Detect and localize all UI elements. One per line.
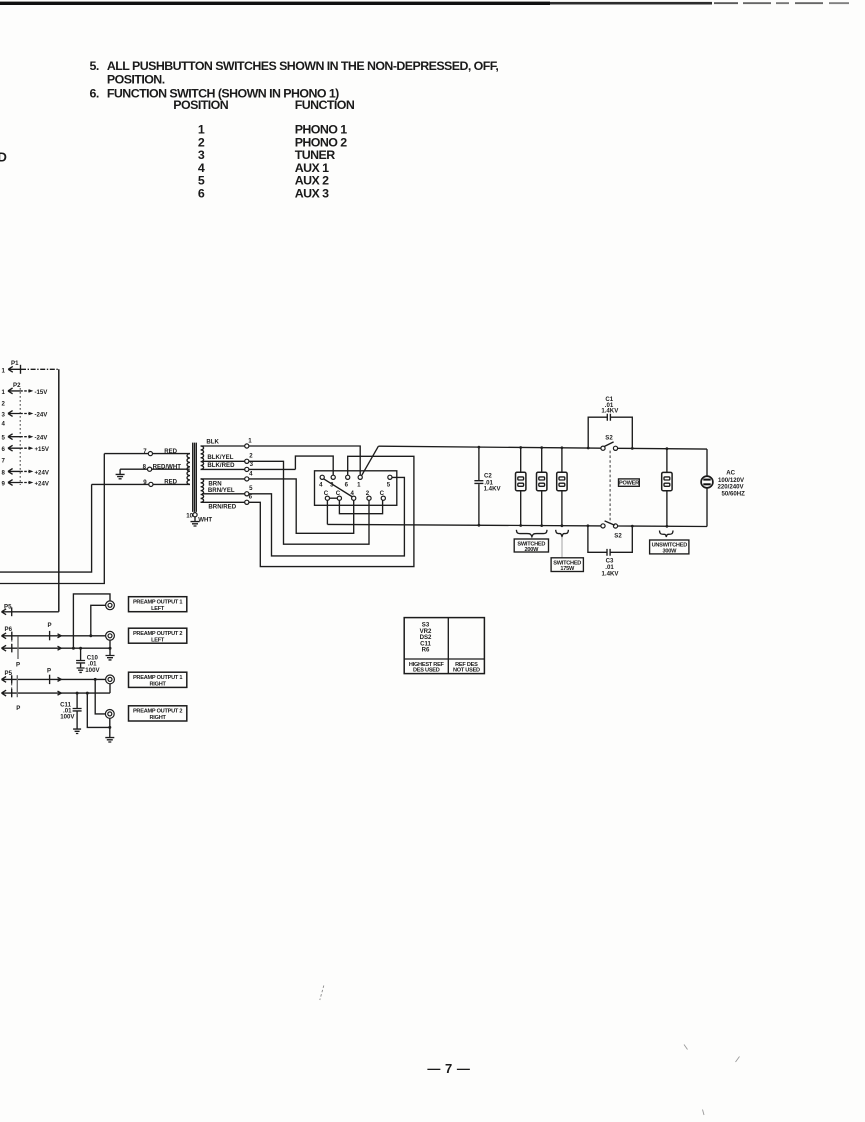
svg-text:PREAMP OUTPUT 2: PREAMP OUTPUT 2 — [133, 631, 182, 637]
svg-text:P1: P1 — [11, 360, 19, 367]
AC plug — [706, 449, 708, 476]
wire P6-1 row — [12, 635, 106, 637]
svg-text:PREAMP OUTPUT 1: PREAMP OUTPUT 1 — [133, 600, 182, 606]
jack J1 strap to row2 — [73, 594, 110, 648]
outlet SO2 — [541, 448, 543, 473]
wiper top4 to bottom4 — [324, 479, 353, 497]
svg-text:5: 5 — [387, 482, 391, 489]
wire net2 to switch bottom pin 2 — [249, 461, 369, 544]
pin 7 — [148, 452, 152, 456]
strap row1 to jack J4 tab — [95, 679, 105, 714]
capacitor C2 — [478, 447, 480, 525]
svg-text:POSITION.: POSITION. — [107, 73, 165, 87]
primary winding T1 — [187, 454, 190, 485]
label SWITCHED 200W — [514, 539, 548, 552]
P5 pin 2 — [2, 690, 12, 696]
wire pin9 vertical to off-page — [0, 484, 92, 572]
svg-text:— 7 —: — 7 — — [427, 1061, 470, 1076]
svg-text:1: 1 — [248, 437, 252, 444]
svg-text:300W: 300W — [662, 549, 677, 555]
switch S2 bottom pole — [601, 524, 605, 528]
svg-text:2: 2 — [2, 401, 6, 408]
svg-text:DES USED: DES USED — [413, 667, 440, 673]
ground at pin 10 — [191, 517, 200, 526]
node 6 (BRN/RED) — [245, 500, 249, 504]
svg-text:LEFT: LEFT — [151, 637, 165, 643]
svg-text:LEFT: LEFT — [151, 606, 165, 612]
outlet SO3 — [561, 448, 563, 472]
P6 pin 1 — [2, 633, 12, 639]
capacitor C10 — [76, 648, 85, 667]
test point P on row2 lower — [16, 675, 18, 697]
jack J3 shell to row2 — [109, 684, 111, 693]
svg-text:4: 4 — [2, 420, 6, 427]
ground at pin 8 — [116, 469, 125, 479]
switch bottom pin 2 — [367, 496, 371, 500]
svg-text:1: 1 — [357, 482, 361, 489]
stray mark — [684, 1045, 688, 1050]
pin marks — [58, 634, 62, 638]
svg-text:POWER: POWER — [619, 481, 639, 487]
svg-text:1: 1 — [2, 367, 6, 374]
svg-text:6: 6 — [345, 482, 349, 489]
svg-text:WHT: WHT — [198, 516, 212, 523]
S2 linkage dashed — [609, 451, 611, 524]
switch S2 top pole — [601, 446, 605, 450]
svg-text:-24V: -24V — [35, 435, 49, 442]
P2 cable dashed line — [19, 388, 21, 485]
svg-text:FUNCTION: FUNCTION — [295, 98, 355, 112]
wire P6-2 row — [12, 647, 110, 649]
SCAN-BAR (page-top scan artifact) — [0, 2, 849, 5]
label UNSWITCHED 300W — [650, 540, 689, 554]
svg-text:1.4KV: 1.4KV — [602, 570, 620, 577]
stray mark — [736, 1057, 740, 1063]
svg-text:100V: 100V — [60, 713, 75, 720]
ground under C10 — [77, 668, 85, 672]
bottom rail left of S2 — [327, 524, 603, 526]
secondary wire 6 BRN/RED — [201, 501, 247, 503]
unswitched outlet SO4 — [666, 449, 668, 473]
wire pin9 feed — [92, 483, 190, 485]
svg-text:NOT USED: NOT USED — [453, 667, 480, 673]
wire pin8 feed — [120, 468, 190, 470]
svg-text:RIGHT: RIGHT — [150, 681, 167, 687]
capacitor C1 — [588, 417, 632, 448]
svg-text:6: 6 — [2, 446, 6, 453]
label SWITCHED 175W — [551, 558, 583, 572]
pin marks — [58, 677, 62, 681]
svg-text:BRN/YEL: BRN/YEL — [208, 487, 235, 494]
ground under C11 — [73, 729, 81, 733]
svg-text:200W: 200W — [524, 547, 539, 553]
svg-text:C: C — [380, 490, 385, 497]
svg-text:P: P — [16, 705, 20, 712]
ground under J2 — [106, 648, 115, 660]
secondary winding lower (BRN group) — [201, 479, 204, 502]
svg-text:C: C — [324, 490, 329, 497]
svg-text:10: 10 — [186, 512, 193, 519]
jack J1 preamp output 1 left — [106, 601, 115, 610]
jack J1 tab to row1 — [91, 605, 106, 636]
top rail right of S2 — [616, 447, 708, 450]
secondary wire 4 BRN — [201, 478, 247, 480]
capacitor C11 — [73, 693, 82, 729]
svg-text:-15V: -15V — [35, 389, 49, 396]
svg-text:4: 4 — [249, 470, 253, 477]
top rail left of S2 — [378, 446, 603, 448]
TABLE-FOOTER — [320, 618, 740, 1115]
switch S1 body — [315, 471, 397, 506]
svg-text:PREAMP OUTPUT 1: PREAMP OUTPUT 1 — [133, 675, 182, 681]
test point P on row2 — [17, 636, 19, 659]
TRANSFORMER — [0, 438, 247, 583]
svg-text:C: C — [336, 490, 341, 497]
switch top pin 4 — [320, 475, 324, 479]
strap row2 to ground node — [87, 693, 110, 727]
bottom rail right of S2 — [616, 525, 708, 528]
label PREAMP OUTPUT 1 LEFT — [129, 597, 187, 612]
LEFT-CONNECTORS — [2, 360, 59, 612]
wire P5-2 row — [12, 692, 110, 694]
node 4 (BRN) — [245, 477, 249, 481]
stray mark slash — [320, 986, 324, 1001]
svg-text:AC: AC — [726, 470, 735, 477]
svg-text:P2: P2 — [13, 382, 21, 389]
stray mark — [703, 1110, 705, 1116]
svg-text:RED: RED — [164, 448, 177, 455]
svg-text:2: 2 — [249, 453, 253, 460]
outlet SO1 — [520, 448, 522, 473]
svg-text:+24V: +24V — [35, 469, 50, 476]
strap C2pin to C3pin — [339, 500, 382, 513]
svg-text:ALL PUSHBUTTON SWITCHES SHOWN: ALL PUSHBUTTON SWITCHES SHOWN IN THE NON… — [107, 59, 499, 73]
svg-text:RED/WHT: RED/WHT — [153, 463, 182, 470]
HEADER-TEXT (notes 5 and 6 with function table) — [0, 59, 498, 201]
wire pin7 feed — [104, 453, 190, 455]
svg-text:6: 6 — [198, 187, 205, 201]
svg-text:P: P — [48, 622, 52, 629]
svg-text:9: 9 — [2, 480, 6, 487]
switch top pin 1 — [358, 475, 362, 479]
brace switched 200W — [516, 530, 547, 537]
brace switched 175W — [556, 530, 569, 537]
secondary winding upper (BLK group) — [201, 446, 204, 469]
wire pin7 vertical to off-page — [0, 454, 104, 584]
svg-text:1.4KV: 1.4KV — [601, 407, 619, 414]
wire bottom C to bottom rail — [326, 500, 328, 524]
svg-text:P: P — [47, 667, 51, 674]
secondary wire 1 BLK — [201, 445, 247, 447]
svg-text:P: P — [16, 661, 20, 668]
PREAMP-SECTION — [2, 594, 187, 742]
switch top pin 5 — [388, 475, 392, 479]
svg-text:5: 5 — [249, 485, 253, 492]
pin 9 — [149, 482, 153, 486]
switch top pin 6 — [346, 475, 350, 479]
svg-text:-24V: -24V — [35, 411, 49, 418]
svg-text:RED: RED — [164, 479, 177, 486]
switch bottom pin C — [381, 496, 385, 500]
P5 pin 1 — [2, 677, 12, 683]
switch bottom pin C — [337, 496, 341, 500]
svg-text:100V: 100V — [85, 667, 100, 674]
svg-text:6.: 6. — [90, 86, 99, 100]
node 3 (BLK/RED) — [245, 467, 249, 471]
wire P5 to P1 bus — [12, 611, 59, 613]
secondary wire 5 BRN/YEL — [202, 493, 247, 495]
svg-text:BRN/RED: BRN/RED — [208, 503, 236, 510]
pin 10 tap — [194, 512, 196, 515]
wire P1 to node (dash-dot) — [21, 368, 59, 370]
ref des table — [404, 618, 484, 674]
svg-text:RIGHT: RIGHT — [150, 715, 167, 721]
link C to C — [330, 497, 338, 499]
wire net6 to switch top pin 6 — [249, 456, 414, 566]
svg-text:BLK/RED: BLK/RED — [207, 462, 235, 469]
jack J3 preamp output 1 right — [106, 675, 115, 684]
svg-text:5: 5 — [2, 435, 6, 442]
svg-text:6: 6 — [249, 494, 253, 501]
node 2 (BLK/YEL) — [245, 459, 249, 463]
svg-text:BLK: BLK — [206, 438, 219, 445]
wire net1 to switch top pin 1 — [249, 446, 360, 475]
wire P1 bus vertical down to P5 — [58, 369, 60, 612]
svg-text:BLK/YEL: BLK/YEL — [207, 454, 233, 461]
svg-text:4: 4 — [319, 482, 323, 489]
POWER-SECTION — [327, 396, 745, 578]
switch bottom pin C — [325, 496, 329, 500]
svg-text:+15V: +15V — [35, 446, 50, 453]
capacitor C3 — [588, 526, 632, 553]
svg-text:50/60HZ: 50/60HZ — [722, 490, 746, 497]
ground under J4 — [105, 727, 114, 742]
wire P5-1 row — [12, 678, 106, 680]
svg-text:5.: 5. — [90, 59, 99, 73]
jack J2 shell to ground — [109, 640, 111, 648]
svg-text:R6: R6 — [422, 647, 430, 654]
svg-text:+24V: +24V — [35, 480, 50, 487]
jack J4 preamp output 2 right — [105, 710, 114, 719]
svg-text:AUX 3: AUX 3 — [295, 187, 329, 201]
node 1 (BLK) — [245, 444, 249, 448]
SELECTOR (voltage selector switch) — [245, 437, 414, 566]
svg-text:S2: S2 — [614, 532, 622, 539]
P6 pin 2 — [2, 645, 12, 651]
label POWER — [619, 479, 640, 486]
node 5 (BRN/YEL) — [245, 492, 249, 496]
label PREAMP OUTPUT 1 RIGHT — [129, 672, 187, 687]
wire net4 to switch bottom pin 4 — [249, 479, 354, 533]
svg-text:PREAMP OUTPUT 2: PREAMP OUTPUT 2 — [133, 709, 182, 715]
svg-text:175W: 175W — [560, 566, 575, 572]
secondary wire 2 BLK/YEL — [202, 460, 247, 462]
brace unswitched — [660, 531, 674, 537]
switch bottom pin 4 — [352, 496, 356, 500]
jack J4 shell down — [109, 718, 111, 727]
switch top pin 3 — [331, 475, 335, 479]
label PREAMP OUTPUT 2 LEFT — [129, 628, 187, 643]
diagonal top pin1 to rail — [362, 446, 379, 475]
svg-text:7: 7 — [2, 458, 6, 465]
secondary wire 3 BLK/RED — [201, 468, 247, 470]
wire net3 to switch top pin 3 — [249, 456, 333, 475]
label PREAMP OUTPUT 2 RIGHT — [129, 706, 187, 721]
svg-text:POSITION: POSITION — [173, 98, 228, 112]
jack J2 preamp output 2 left — [106, 631, 115, 640]
svg-text:D: D — [0, 150, 7, 165]
pin 8 — [148, 467, 152, 471]
svg-text:3: 3 — [2, 411, 6, 418]
core lines — [193, 443, 197, 512]
svg-text:8: 8 — [2, 469, 6, 476]
svg-text:1.4KV: 1.4KV — [484, 486, 502, 493]
svg-text:S2: S2 — [605, 434, 613, 441]
wire net5 to switch top pin 5 — [249, 477, 404, 556]
svg-text:1: 1 — [2, 389, 6, 396]
